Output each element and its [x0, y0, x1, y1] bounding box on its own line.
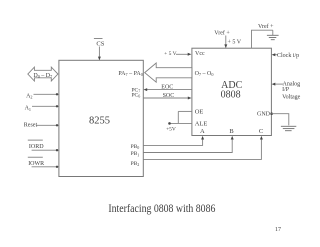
wire PB1 to B: [131, 136, 234, 158]
port A bus arrow PA7-PA0 from ADC outputs: [145, 63, 192, 82]
svg-text:A2: A2: [26, 94, 32, 100]
svg-text:C: C: [259, 128, 263, 135]
svg-text:Voltage: Voltage: [282, 95, 301, 101]
label PA7-PA0: [118, 71, 142, 77]
SOC wire (PC6 to ADC): [143, 93, 191, 100]
pin Clock i/p: [272, 53, 300, 59]
pin IOWR wire (active low): [28, 157, 59, 168]
svg-text:OE: OE: [195, 109, 204, 116]
pin Analog I/P Voltage: [272, 81, 301, 100]
node +5V at ALE: [166, 122, 176, 132]
Vref+ supply wire (+5V): [214, 30, 241, 48]
svg-text:17: 17: [275, 227, 281, 233]
OE wire: [178, 109, 203, 116]
label PC7: [131, 87, 140, 93]
Vref- wire to ground: [252, 23, 275, 48]
ground (right): [281, 126, 296, 130]
label pin A: [200, 128, 205, 135]
svg-text:IORD: IORD: [29, 144, 44, 150]
svg-text:O7 – O0: O7 – O0: [195, 71, 214, 77]
pin CS (chip select, active low): [94, 38, 105, 60]
svg-text:PB1: PB1: [131, 151, 140, 157]
svg-text:A1: A1: [25, 106, 31, 112]
caption title: [108, 203, 215, 215]
svg-text:Vcc: Vcc: [195, 51, 205, 57]
chip U1 8255 box: [59, 60, 143, 176]
svg-text:8255: 8255: [89, 116, 110, 127]
svg-text:D0 – D7: D0 – D7: [33, 73, 52, 79]
pin IORD wire (active low): [28, 140, 59, 151]
pin A2 wire: [26, 93, 59, 100]
svg-text:Clock i/p: Clock i/p: [277, 53, 299, 59]
svg-text:PB2: PB2: [131, 161, 140, 167]
svg-text:Interfacing 0808 with 8086: Interfacing 0808 with 8086: [108, 203, 215, 215]
chip U2 ADC 0808 box: [192, 48, 272, 135]
svg-text:PA7 – PA0: PA7 – PA0: [118, 71, 142, 77]
svg-text:B: B: [229, 128, 234, 135]
svg-text:0808: 0808: [221, 90, 241, 101]
svg-text:Reset: Reset: [24, 123, 38, 129]
svg-text:+5V: +5V: [166, 127, 176, 133]
svg-text:+ 5 V: + 5 V: [164, 51, 177, 57]
svg-text:CS: CS: [96, 40, 104, 47]
wire PB2 to C: [131, 136, 263, 167]
label pin C: [259, 128, 263, 135]
label O7-O0: [195, 71, 214, 77]
pin A1 wire: [25, 105, 59, 112]
pin GND wire: [257, 112, 289, 126]
svg-text:A: A: [200, 128, 205, 135]
svg-text:Vref +: Vref +: [214, 30, 230, 37]
label pin B: [229, 128, 234, 135]
Vcc +5V supply wire: [164, 51, 205, 57]
svg-text:GND: GND: [257, 112, 271, 118]
page number 17: [275, 227, 281, 233]
wire PB0 to A: [131, 136, 205, 150]
pin Reset wire: [24, 123, 59, 129]
svg-text:Vref +: Vref +: [258, 23, 274, 30]
wire OE-ALE bracket: [177, 111, 179, 123]
svg-text:PC6: PC6: [131, 92, 140, 98]
svg-text:IOWR: IOWR: [28, 161, 44, 167]
svg-text:ALE: ALE: [195, 121, 208, 128]
svg-text:+ 5 V: + 5 V: [228, 40, 242, 46]
data bus D0-D7 double arrow: [28, 67, 58, 81]
svg-text:I/P: I/P: [282, 87, 290, 93]
svg-text:PB0: PB0: [131, 144, 140, 150]
label PC6: [131, 92, 140, 98]
ground (top right): [267, 30, 279, 40]
EOC wire (ADC to PC7): [144, 84, 192, 91]
ALE wire: [170, 121, 208, 128]
